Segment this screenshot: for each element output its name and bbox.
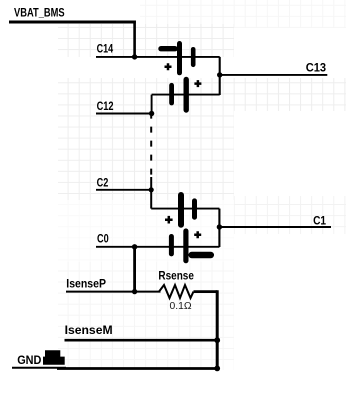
wire C12 net [96, 95, 152, 114]
battery cell B14 [161, 44, 193, 73]
wire right vertical C14->C13->C12 [219, 57, 221, 95]
polarity + mark [194, 231, 201, 238]
node junction VBAT/C14 [132, 54, 137, 59]
svg-text:C2: C2 [97, 178, 109, 190]
polarity + mark [165, 216, 173, 224]
thick stub on positive plate [161, 46, 175, 51]
wire right vertical Rsense->IsenseM->GND [216, 290, 219, 368]
svg-text:C14: C14 [97, 44, 114, 56]
svg-text:C13: C13 [306, 63, 326, 75]
wire GND net [12, 367, 66, 369]
wire battery row B13 [152, 94, 220, 96]
wire VBAT_BMS vertical drop to C14 [133, 21, 136, 58]
polarity + mark [194, 80, 201, 87]
negative plate (short) [169, 237, 174, 254]
node junction IsenseP [132, 289, 137, 294]
battery cell B13 [172, 80, 202, 111]
negative plate (short) [192, 201, 197, 217]
positive plate (tall) [183, 231, 188, 261]
wire C0 vertical to IsenseP [133, 247, 136, 292]
negative plate (short) [169, 85, 174, 103]
node junction C12/dashes [149, 111, 154, 116]
wire VBAT_BMS horizontal [9, 21, 136, 24]
wire battery row B2 [151, 208, 219, 210]
node junction C1 [217, 224, 222, 229]
wire solid below dashes to C2 [150, 177, 152, 209]
wire C14 net [96, 56, 220, 58]
node junction C13 [217, 72, 222, 77]
positive plate (tall) [183, 80, 188, 111]
wire C0 net / battery row B1 [96, 246, 219, 248]
wire C13 net [220, 74, 328, 76]
wire Rsense right [194, 290, 218, 293]
wire right vertical C2->C1->C0 [218, 209, 220, 247]
svg-text:Rsense: Rsense [158, 271, 194, 283]
wire IsenseP net [66, 291, 161, 293]
wire C2 net [96, 189, 151, 191]
svg-text:0.1Ω: 0.1Ω [170, 301, 192, 312]
svg-text:VBAT_BMS: VBAT_BMS [14, 8, 65, 20]
wire IsenseM net [65, 339, 218, 342]
resistor zigzag body [159, 285, 194, 298]
node junction IsenseM [214, 337, 220, 343]
positive plate (tall) [178, 195, 184, 225]
battery cell B2 [165, 195, 195, 225]
battery cell B1 [171, 231, 210, 261]
wire C1 net [219, 226, 331, 228]
positive plate (tall) [177, 44, 182, 73]
negative plate (short) [191, 49, 196, 65]
node junction GND [214, 366, 220, 372]
node junction C2 [149, 187, 154, 192]
svg-text:IsenseM: IsenseM [65, 325, 113, 337]
thick stub on positive plate [192, 252, 211, 259]
svg-text:GND: GND [17, 355, 41, 367]
background grid patches (decorative) [58, 24, 234, 57]
svg-text:C0: C0 [97, 234, 109, 246]
polarity + mark [165, 63, 172, 70]
svg-text:IsenseP: IsenseP [66, 279, 106, 291]
node junction C0 [132, 244, 137, 249]
svg-text:C12: C12 [97, 101, 114, 113]
svg-text:C1: C1 [313, 215, 327, 227]
redaction box next to GND [43, 350, 65, 365]
wire dashed omitted-cells [150, 116, 152, 177]
